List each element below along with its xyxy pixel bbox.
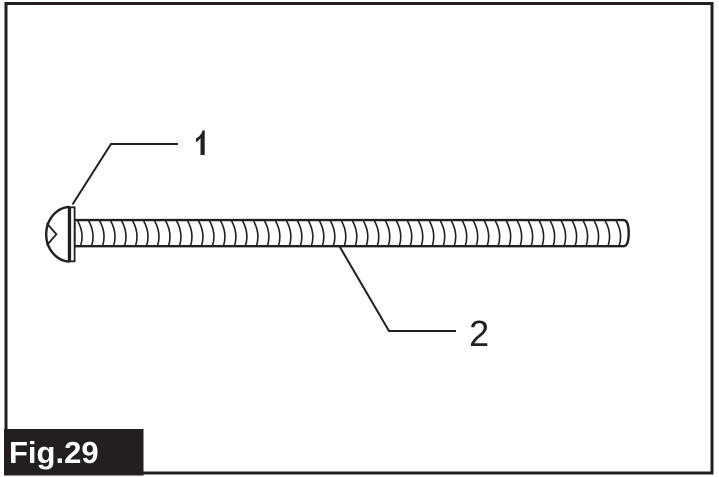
svg-text:2: 2: [469, 313, 489, 354]
svg-text:Fig.29: Fig.29: [9, 435, 99, 470]
